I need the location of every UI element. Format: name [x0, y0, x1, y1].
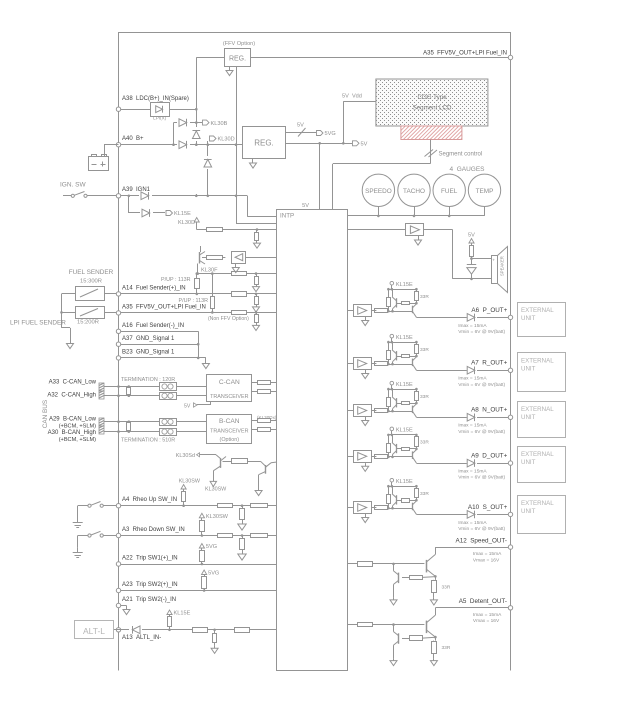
resistor R14 shunt	[253, 274, 260, 292]
buffer U7	[354, 451, 372, 463]
pin A9 output	[471, 453, 513, 466]
svg-text:15:200R: 15:200R	[77, 320, 99, 326]
svg-text:SPEAKER: SPEAKER	[500, 256, 505, 276]
flag KL15E ch5	[390, 478, 413, 487]
wire KL15E rail ch2	[387, 341, 418, 344]
flag KL15E	[166, 211, 191, 218]
resistor R23	[258, 419, 278, 423]
wire output ch5	[416, 514, 466, 516]
svg-text:A4 Rheo Up SW_IN: A4 Rheo Up SW_IN	[122, 497, 177, 503]
resistor R46 bias	[387, 389, 391, 411]
wire 5V to INTP	[302, 143, 319, 209]
resistor Rb A12	[358, 562, 425, 567]
svg-text:FUEL: FUEL	[441, 188, 458, 195]
svg-text:KL15E: KL15E	[396, 335, 413, 341]
ground U7	[362, 462, 369, 471]
wire A40 row	[121, 143, 243, 146]
svg-text:EXTERNAL: EXTERNAL	[521, 500, 554, 507]
ground U5	[362, 370, 369, 379]
unit EXTERNAL UNIT 5	[518, 496, 566, 534]
wire A38 row	[121, 108, 198, 111]
gauge SPEEDO	[362, 174, 394, 217]
pin A13 ALTL_IN-	[116, 628, 161, 641]
svg-text:UNIT: UNIT	[521, 315, 536, 322]
label KL30F	[201, 268, 218, 274]
svg-text:A38 LDC(B+)_IN(Spare): A38 LDC(B+)_IN(Spare)	[122, 96, 189, 102]
resistor RT1 termination	[127, 387, 131, 395]
resistor R43 series	[375, 506, 388, 510]
pin A12	[456, 537, 513, 549]
svg-text:Vmin = 6V @ 9V(batt): Vmin = 6V @ 9V(batt)	[458, 382, 505, 388]
pin A5	[459, 598, 513, 610]
svg-text:A5 Detent_OUT-: A5 Detent_OUT-	[459, 598, 507, 605]
wire 5V out	[285, 142, 352, 145]
wire output ch4	[416, 463, 466, 465]
wire INTP to buzzer buffer	[347, 229, 406, 231]
resistor R54 mid	[396, 302, 417, 305]
wire feed A5	[347, 624, 357, 626]
LPI fuel sender RS2	[76, 307, 117, 326]
resistor R41 series	[375, 409, 388, 413]
resistor R32 pullup	[200, 548, 205, 565]
wire C-CAN rx	[252, 391, 258, 393]
wire gauge bus	[347, 215, 484, 217]
wire R25 to Q4	[248, 461, 266, 466]
transistor Q9a	[392, 486, 397, 508]
svg-text:33R: 33R	[442, 645, 451, 651]
svg-text:5VG: 5VG	[325, 131, 336, 137]
resistor R30	[218, 534, 233, 538]
resistor R57 mid	[396, 448, 417, 451]
label 4 GAUGES	[449, 166, 485, 173]
svg-text:KL30SW: KL30SW	[205, 487, 227, 493]
choke L3	[160, 419, 177, 426]
svg-text:EXTERNAL: EXTERNAL	[521, 357, 554, 364]
resistor R50 33R	[415, 342, 430, 356]
diode D4 B+ feed	[179, 141, 187, 149]
resistor R22	[258, 390, 278, 394]
wire base row ch2	[387, 363, 413, 366]
flag KL30B	[203, 120, 228, 127]
svg-text:5V: 5V	[184, 404, 191, 410]
svg-text:(+BCM, +SLM): (+BCM, +SLM)	[59, 437, 96, 443]
diode D11	[467, 366, 509, 374]
wire speaker plus	[472, 258, 492, 260]
label limits A12	[473, 551, 502, 563]
wire Q4 emitter	[255, 475, 262, 496]
svg-text:P/UP : 113R: P/UP : 113R	[179, 298, 209, 304]
wire B-CAN_Low row	[104, 420, 207, 423]
wire KL15E rail ch1	[387, 288, 418, 291]
transistor Q A5 main	[426, 608, 437, 641]
IC C-CAN transceiver	[207, 375, 252, 402]
switch SW2 (rheo down)	[73, 531, 117, 557]
label limits ch3	[458, 423, 505, 435]
resistor R35	[193, 628, 208, 633]
svg-text:33R: 33R	[420, 394, 429, 400]
svg-text:KL30D: KL30D	[178, 220, 195, 226]
diode D8	[132, 626, 140, 634]
svg-text:KL15E: KL15E	[174, 211, 191, 217]
LCD driver hatched block	[401, 126, 462, 140]
buffer U3 buzzer	[406, 224, 424, 236]
svg-text:A40 B+: A40 B+	[122, 136, 144, 142]
diode D10	[467, 314, 509, 322]
diode D1 in box (LDC input)	[151, 103, 170, 121]
pin A6 output	[471, 307, 512, 320]
label limits ch5	[458, 520, 505, 532]
flag 5V buzzer	[468, 233, 475, 244]
wire sender common	[60, 294, 75, 342]
svg-text:33R: 33R	[420, 347, 429, 353]
ground Q2 A12	[390, 597, 397, 605]
resistor R33R A12	[432, 580, 451, 593]
svg-text:INTP: INTP	[280, 213, 294, 220]
svg-text:A6 P_OUT+: A6 P_OUT+	[471, 307, 507, 314]
transistor Q5a	[392, 289, 397, 311]
unit EXTERNAL UNIT 3	[518, 402, 566, 438]
resistor R27	[218, 504, 233, 508]
svg-text:33R: 33R	[420, 491, 429, 497]
resistor R19	[208, 311, 249, 323]
svg-text:33R: 33R	[420, 294, 429, 300]
wire A21 stub	[121, 606, 127, 608]
svg-text:5V: 5V	[361, 142, 368, 148]
wire A13 row a	[114, 629, 129, 631]
svg-text:+: +	[492, 258, 495, 263]
svg-text:TACHO: TACHO	[403, 188, 425, 195]
svg-text:A13 ALTL_IN-: A13 ALTL_IN-	[122, 635, 161, 641]
resistor R25	[232, 459, 248, 464]
choke L4	[160, 429, 177, 436]
wire 5V Vdd	[342, 94, 376, 144]
flag 5VG A22	[199, 544, 217, 551]
wire buffer out ch5	[371, 507, 376, 509]
svg-text:A22 Trip SW1(+)_IN: A22 Trip SW1(+)_IN	[122, 556, 178, 562]
label limits ch4	[458, 469, 505, 481]
transistor Q6a	[392, 342, 397, 364]
resistor R37 shunt	[211, 630, 218, 654]
svg-text:Imax = 15mA: Imax = 15mA	[473, 551, 502, 557]
pin A22 Trip SW1(+)_IN	[116, 556, 177, 567]
ground 33R A5	[430, 653, 437, 665]
svg-text:FUEL SENDER: FUEL SENDER	[69, 269, 114, 276]
buffer U4	[354, 305, 372, 317]
resistor R56 mid	[396, 402, 417, 405]
svg-text:(KL30Dx): (KL30Dx)	[257, 415, 277, 420]
wire buffer out ch4	[371, 456, 376, 458]
wire FFV REG out to B+ node	[236, 66, 238, 145]
resistor R34 pullup	[168, 615, 172, 630]
wire A37 row	[121, 343, 200, 346]
wire KL30 sense	[235, 145, 277, 224]
svg-text:A29 B-CAN_Low: A29 B-CAN_Low	[49, 417, 97, 423]
svg-text:A21 Trip SW2(-)_IN: A21 Trip SW2(-)_IN	[122, 597, 176, 603]
svg-text:KL15E: KL15E	[174, 611, 191, 617]
svg-text:KL15E: KL15E	[396, 282, 413, 288]
resistor R39 series	[375, 309, 388, 313]
pin A14 Fuel Sender(+)_IN	[116, 286, 185, 297]
svg-text:Imax = 15mA: Imax = 15mA	[458, 469, 487, 475]
svg-text:A8 N_OUT+: A8 N_OUT+	[471, 407, 508, 414]
pin A16 Fuel Sender(-)_IN	[116, 323, 184, 333]
flag KL30SW A4	[179, 479, 201, 490]
svg-text:EXTERNAL: EXTERNAL	[521, 307, 554, 314]
svg-text:UNIT: UNIT	[521, 365, 536, 372]
wire KL15E branch	[129, 196, 166, 213]
svg-text:A39 IGN1: A39 IGN1	[122, 187, 151, 193]
wire R12 leads	[202, 257, 225, 259]
resistor R47 bias	[387, 435, 391, 457]
wire A23 row	[121, 590, 277, 592]
svg-text:(+BCM, +SLM): (+BCM, +SLM)	[59, 424, 96, 430]
svg-text:A30 B-CAN_High: A30 B-CAN_High	[48, 430, 96, 436]
wire KL15E rail ch4	[387, 434, 418, 437]
wire Q1 row	[198, 246, 201, 274]
resistor R31 shunt	[238, 536, 246, 561]
transistor Q1	[200, 252, 206, 265]
svg-text:Imax = 15mA: Imax = 15mA	[458, 323, 487, 329]
flag KL30D source	[178, 218, 199, 227]
svg-text:Vmin = 6V @ 9V(batt): Vmin = 6V @ 9V(batt)	[458, 329, 505, 335]
svg-text:UNIT: UNIT	[521, 459, 536, 466]
resistor R52 33R	[415, 435, 430, 449]
svg-text:(Option): (Option)	[220, 437, 240, 443]
buffer U5	[354, 358, 372, 370]
svg-text:Vmin = 6V @ 9V(batt): Vmin = 6V @ 9V(batt)	[458, 526, 505, 532]
resistor RT2 termination	[127, 423, 131, 431]
wire KL30F rail	[196, 272, 277, 275]
svg-text:KL30SW: KL30SW	[206, 514, 229, 520]
transistor Q6b	[413, 357, 417, 370]
wire feed A12	[347, 563, 357, 565]
svg-text:Vmax = 16V: Vmax = 16V	[473, 618, 500, 624]
svg-text:TEMP: TEMP	[476, 188, 494, 195]
svg-text:LPI(X): LPI(X)	[153, 116, 166, 121]
resistor R58 mid	[396, 499, 417, 503]
resistor Rm A5	[402, 636, 423, 641]
wire B-CAN tx	[252, 415, 277, 421]
svg-text:A3 Rheo Down SW_IN: A3 Rheo Down SW_IN	[122, 527, 185, 533]
flag KL15E ch3	[390, 381, 413, 390]
diode D3 vertical	[192, 131, 200, 139]
svg-text:A23 Trip SW2(+)_IN: A23 Trip SW2(+)_IN	[122, 582, 178, 588]
wire Rm link A12	[422, 576, 435, 579]
resistor R28 shunt	[238, 506, 246, 530]
diode D6 IGN1	[141, 192, 149, 200]
svg-text:REG.: REG.	[254, 139, 274, 148]
wire Q3 collector	[223, 461, 232, 463]
wire A16 row	[121, 331, 199, 358]
connector border (main unit outline)	[119, 33, 511, 671]
ground 33R A12	[430, 593, 437, 605]
svg-text:EXTERNAL: EXTERNAL	[521, 406, 554, 413]
ground A21	[123, 607, 130, 615]
flag 5VG A23	[202, 570, 220, 577]
wire rail KL30 vertical	[196, 58, 198, 145]
svg-text:B-CAN: B-CAN	[219, 418, 240, 425]
wire C-CAN_Low row	[104, 385, 207, 388]
svg-text:Vmin = 6V @ 9V(batt): Vmin = 6V @ 9V(batt)	[458, 475, 505, 481]
buffer U6	[354, 405, 372, 417]
pin A8 output	[471, 407, 513, 420]
svg-text:UNIT: UNIT	[521, 414, 536, 421]
wire P/UP A35	[179, 274, 213, 304]
svg-text:A10 S_OUT+: A10 S_OUT+	[468, 504, 508, 511]
svg-text:A9 D_OUT+: A9 D_OUT+	[471, 453, 508, 460]
wire KL15E rail ch3	[387, 388, 418, 391]
label CAN BUS	[42, 400, 49, 428]
choke L1	[160, 383, 177, 391]
wire C-CAN_High row	[104, 394, 207, 397]
wire B-CAN_High row	[104, 430, 207, 433]
resistor Rm A12	[402, 576, 423, 580]
transistor Q3	[213, 457, 226, 471]
wire R15 to A14	[196, 289, 199, 295]
flag KL15E ch4	[390, 427, 413, 436]
wire KL15E rail ch5	[387, 485, 418, 488]
svg-text:5V Vdd: 5V Vdd	[342, 94, 362, 100]
wire A3 row	[121, 534, 277, 537]
wire A35 top net	[196, 57, 510, 59]
svg-text:TERMINATION : 510R: TERMINATION : 510R	[121, 438, 175, 444]
regulator REG (FFV option)	[223, 41, 255, 67]
interface IC INTP	[277, 210, 348, 671]
wire buffer out ch1	[371, 310, 376, 312]
wire output ch2	[416, 370, 466, 372]
wire R18 to A35	[211, 308, 214, 314]
ground under REG	[250, 159, 257, 169]
ground U4	[362, 317, 369, 326]
svg-text:Imax = 15mA: Imax = 15mA	[458, 423, 487, 429]
svg-text:33R: 33R	[442, 584, 451, 590]
svg-text:A35 FFV5V_OUT+LPI Fuel_IN: A35 FFV5V_OUT+LPI Fuel_IN	[122, 305, 206, 311]
svg-text:33R: 33R	[420, 440, 429, 446]
segment LCD module	[376, 79, 488, 126]
svg-text:ALT-L: ALT-L	[83, 626, 105, 636]
wire INTP to buffer ch5	[347, 507, 353, 509]
svg-text:COG Type: COG Type	[417, 94, 447, 101]
choke L2	[160, 393, 177, 400]
resistor R49 33R	[415, 289, 430, 303]
pin B23 GND_Signal 1	[116, 350, 175, 361]
switch IGN. SW	[60, 182, 116, 198]
svg-text:KL30D: KL30D	[218, 137, 235, 143]
wire INTP to buffer ch3	[347, 410, 353, 412]
label limits A5	[473, 612, 502, 624]
svg-text:B23 GND_Signal 1: B23 GND_Signal 1	[122, 350, 175, 356]
pin A33 C-CAN_Low	[49, 380, 104, 400]
svg-text:IGN. SW: IGN. SW	[60, 182, 87, 189]
svg-text:A14 Fuel Sender(+)_IN: A14 Fuel Sender(+)_IN	[122, 286, 186, 292]
pin A35 FFV5V_OUT+LPI Fuel_IN	[116, 305, 206, 316]
wire output ch1	[416, 317, 466, 319]
diode D12	[467, 413, 509, 421]
flag KL30D	[208, 136, 235, 145]
resistor R44 bias	[387, 289, 391, 311]
svg-text:KL30B: KL30B	[211, 121, 228, 127]
transistor Q A12 second	[394, 564, 399, 598]
switch SW1 (rheo up)	[73, 502, 117, 528]
gauge FUEL	[433, 174, 465, 217]
resistor R42 series	[375, 455, 388, 459]
resistor R48 bias	[387, 486, 391, 508]
svg-text:(FFV Option): (FFV Option)	[223, 41, 255, 47]
transistor Q8a	[392, 435, 397, 457]
flag KL30SW A3	[199, 513, 228, 520]
wire buzzer path	[424, 230, 491, 279]
svg-text:Imax = 15mA: Imax = 15mA	[458, 376, 487, 382]
svg-text:Segment control: Segment control	[439, 152, 483, 158]
wire A14 row	[121, 293, 277, 296]
resistor R51 33R	[415, 389, 430, 403]
resistor R24	[258, 428, 278, 432]
resistor R18 P/UP	[211, 297, 215, 309]
resistor Rb A5	[358, 623, 425, 627]
wire KL30B row	[174, 121, 203, 144]
buffer U2 (drive)	[232, 252, 278, 264]
svg-text:REG.: REG.	[229, 56, 246, 63]
pin A3 Rheo Down SW_IN	[116, 527, 184, 538]
pin A30 B-CAN_High	[48, 430, 96, 443]
svg-text:A32 C-CAN_High: A32 C-CAN_High	[47, 393, 96, 399]
pin A38 LDC(B+)_IN(Spare)	[116, 96, 189, 111]
ground U6	[362, 417, 369, 426]
wire base row ch1	[387, 310, 413, 313]
wire base row ch4	[387, 456, 413, 459]
unit EXTERNAL UNIT 4	[518, 447, 566, 483]
diode D2 KL30B	[179, 119, 187, 127]
resistor R16	[232, 292, 247, 297]
resistor R11 shunt	[254, 230, 261, 249]
wire base row ch5	[387, 507, 413, 510]
diode D14	[467, 511, 509, 519]
ground under U2	[232, 263, 239, 272]
wire C-CAN tx	[252, 382, 258, 384]
pin A37 GND_Signal 1	[116, 336, 175, 346]
pin A35 FFV5V_OUT+LPI Fuel_IN (top)	[423, 51, 513, 60]
diode D9 buzzer	[467, 257, 476, 280]
svg-text:SPEEDO: SPEEDO	[365, 188, 392, 195]
flag KL15E ch1	[390, 281, 413, 290]
wire base row ch3	[387, 410, 413, 413]
ground U8	[362, 514, 369, 523]
resistor R33R A5	[432, 641, 451, 654]
svg-text:EXTERNAL: EXTERNAL	[521, 451, 554, 458]
svg-text:5VG: 5VG	[208, 571, 219, 577]
unit ALT-L	[75, 621, 114, 639]
diode D5 vertical	[204, 159, 212, 167]
transistor Q A12 main	[426, 547, 437, 580]
wire buffer out ch2	[371, 363, 376, 365]
wire D5 branch	[207, 145, 210, 197]
label limits ch1	[458, 323, 505, 335]
wire output A5	[435, 607, 508, 609]
svg-text:5V: 5V	[302, 203, 309, 209]
svg-text:Vmax = 16V: Vmax = 16V	[473, 558, 500, 564]
resistor R30b	[251, 534, 268, 538]
speaker SP1	[492, 247, 508, 293]
label TERMINATION 120R	[121, 377, 175, 383]
svg-text:A16 Fuel Sender(-)_IN: A16 Fuel Sender(-)_IN	[122, 323, 184, 329]
diode D13	[467, 459, 509, 467]
wire buffer out ch3	[371, 410, 376, 412]
svg-text:LPI FUEL SENDER: LPI FUEL SENDER	[10, 320, 66, 327]
svg-text:KL15E: KL15E	[396, 428, 413, 434]
svg-text:Imax = 15mA: Imax = 15mA	[458, 520, 487, 526]
pin A23 Trip SW2(+)_IN	[116, 582, 177, 593]
label FUEL SENDER	[69, 269, 114, 285]
